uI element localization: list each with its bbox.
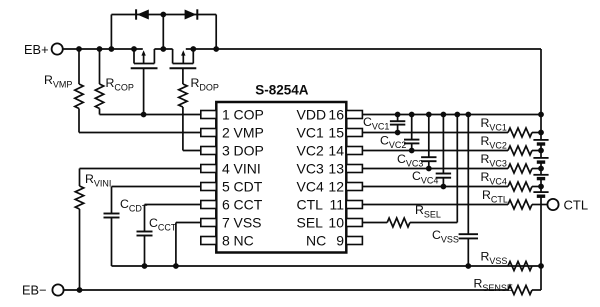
- wire diode loop right riser: [215, 15, 217, 50]
- IC U1 title S-8254A: [255, 83, 309, 98]
- junction VDD wire at CVC2: [409, 112, 415, 118]
- junction on EB+ rail at FET1 drain: [131, 46, 137, 52]
- svg-text:VDD: VDD: [297, 107, 327, 123]
- IC U1 pin stubs: [201, 111, 363, 245]
- transistor Q1 arrow: [141, 50, 145, 63]
- terminal EB+ label: [24, 42, 49, 57]
- resistor RVINI: [75, 169, 83, 291]
- wire battery string: [540, 115, 542, 267]
- wire VSS bottom: [112, 265, 542, 267]
- svg-text:DOP: DOP: [234, 143, 264, 159]
- svg-text:VC4: VC4: [297, 179, 324, 195]
- junction RVC2 on battery string: [538, 148, 544, 154]
- svg-text:NC: NC: [234, 233, 254, 249]
- capacitor CVC3 label: [397, 152, 423, 169]
- transistor Q1 gate bar: [131, 67, 158, 69]
- resistor RVMP label: [44, 73, 72, 90]
- junction CVSS on VSS wire: [465, 263, 471, 269]
- junction CVC2 on VC2 wire: [409, 148, 415, 154]
- junction CVC1 on VC1 wire: [395, 130, 401, 136]
- junction VDD wire at battery string: [538, 112, 544, 118]
- capacitor CVC1 label: [363, 115, 389, 132]
- svg-text:14: 14: [328, 143, 344, 159]
- resistor RSEL: [362, 218, 457, 227]
- junction Q1 gate on COP wire: [141, 112, 147, 118]
- transistor Q1 gate lead: [143, 68, 145, 114]
- resistor RCTL / wire pin11 CTL: [362, 200, 547, 209]
- junction on EB+ rail center node: [160, 46, 166, 52]
- terminal CTL circle: [547, 199, 558, 210]
- svg-text:10: 10: [328, 215, 344, 231]
- transistor Q1 source-drain path: [134, 49, 154, 64]
- junction CCCT on VSS wire: [142, 263, 148, 269]
- svg-text:VMP: VMP: [234, 125, 264, 141]
- svg-text:2: 2: [222, 125, 230, 141]
- capacitor CVC4: [436, 115, 451, 187]
- junction on EB+ rail at RVMP: [76, 46, 82, 52]
- transistor Q2 gate lead: [182, 68, 184, 84]
- junction VDD wire at CVSS: [465, 112, 471, 118]
- transistor Q2 gate bar: [170, 67, 197, 69]
- junction VDD wire at CVC1: [395, 112, 401, 118]
- IC U1 pin numbers and names: [222, 107, 344, 249]
- svg-text:VC2: VC2: [297, 143, 324, 159]
- svg-text:15: 15: [328, 125, 344, 141]
- resistor RVC4 label: [481, 170, 507, 187]
- terminal CTL label: [564, 198, 589, 213]
- svg-text:VC3: VC3: [297, 161, 324, 177]
- resistor RSENSE: [508, 286, 541, 295]
- resistor RVC3 / wire pin13 VC3: [362, 164, 541, 173]
- capacitor CVC2 label: [380, 134, 406, 151]
- capacitor CCDT label: [120, 197, 148, 214]
- junction VDD wire at RSEL riser: [454, 112, 460, 118]
- terminal EB- circle: [52, 284, 63, 295]
- svg-text:3: 3: [222, 143, 230, 159]
- svg-text:8: 8: [222, 233, 230, 249]
- transistor Q2 arrow: [181, 50, 185, 63]
- battery cell BT1: [533, 140, 548, 144]
- junction on EB+ rail at RCOP: [97, 46, 103, 52]
- svg-text:11: 11: [329, 197, 344, 213]
- resistor RCOP label: [106, 76, 134, 93]
- battery cell BT4: [533, 192, 548, 196]
- capacitor CCDT: [104, 187, 120, 267]
- resistor RSENSE label: [474, 277, 513, 294]
- junction VDD wire at CVC4: [441, 112, 447, 118]
- battery cell BT2: [533, 158, 548, 162]
- capacitor CVC1: [390, 115, 405, 133]
- resistor RVC3 label: [481, 152, 507, 169]
- terminal EB- label: [22, 283, 47, 298]
- diode D1 (points left): [136, 9, 149, 19]
- junction on EB+ rail at diode-left: [109, 46, 115, 52]
- svg-text:4: 4: [222, 161, 230, 177]
- junction RVC3 on battery string: [538, 166, 544, 172]
- svg-text:VSS: VSS: [234, 215, 262, 231]
- battery cell BT3: [533, 175, 548, 179]
- junction on EB+ rail at FET2 drain: [190, 46, 196, 52]
- svg-text:5: 5: [222, 179, 230, 195]
- resistor RVSS label: [481, 250, 508, 267]
- svg-text:S-8254A: S-8254A: [255, 83, 309, 98]
- wire pin2 VMP: [79, 132, 201, 134]
- wire pin16 VDD: [362, 114, 541, 116]
- svg-text:1: 1: [222, 107, 230, 123]
- resistor RCOP: [95, 49, 103, 115]
- svg-text:NC: NC: [306, 233, 326, 249]
- resistor RCTL label: [482, 188, 508, 205]
- svg-text:CTL: CTL: [297, 197, 324, 213]
- wire string to EB-: [540, 266, 542, 290]
- resistor RVC2 label: [481, 134, 507, 151]
- wire pin5 CDT: [112, 186, 201, 188]
- resistor RVSS: [508, 262, 532, 271]
- resistor RVC1 / wire pin15 VC1: [362, 128, 541, 137]
- svg-text:SEL: SEL: [297, 215, 324, 231]
- capacitor CCCT: [137, 205, 153, 267]
- wire diode top: [111, 14, 216, 16]
- junction RVC4 on battery string: [538, 184, 544, 190]
- capacitor CVSS label: [432, 228, 459, 245]
- capacitor CCCT label: [149, 216, 177, 233]
- svg-text:VC1: VC1: [297, 125, 324, 141]
- junction RVINI on EB- wire: [77, 287, 83, 293]
- svg-text:9: 9: [336, 233, 344, 249]
- svg-text:13: 13: [328, 161, 344, 177]
- resistor RVINI label: [85, 172, 111, 189]
- wire pin7 VSS: [176, 223, 201, 267]
- resistor RVC4 / wire pin12 VC4: [362, 182, 541, 191]
- junction VDD wire at CVC3: [426, 112, 432, 118]
- capacitor CVSS: [459, 115, 478, 267]
- wire EB+ rail: [63, 48, 541, 50]
- svg-text:VINI: VINI: [234, 161, 261, 177]
- junction on EB+ rail at diode-right: [213, 46, 219, 52]
- svg-text:EB+: EB+: [24, 42, 49, 57]
- wire EB+ rail riser to VDD: [540, 49, 542, 115]
- capacitor CVC3: [421, 115, 436, 169]
- svg-text:6: 6: [222, 197, 230, 213]
- junction RVC1 on battery string: [538, 130, 544, 136]
- capacitor CVC2: [404, 115, 419, 151]
- svg-text:12: 12: [328, 179, 344, 195]
- wire SEL riser: [456, 115, 458, 223]
- svg-text:CCT: CCT: [234, 197, 263, 213]
- svg-text:CDT: CDT: [234, 179, 263, 195]
- resistor RDOP label: [191, 76, 219, 93]
- resistor RVC2 / wire pin14 VC2: [362, 146, 541, 155]
- wire EB-: [64, 289, 508, 291]
- svg-text:EB−: EB−: [22, 283, 47, 298]
- capacitor CVC4 label: [412, 169, 438, 186]
- svg-text:COP: COP: [234, 107, 264, 123]
- transistor Q2 source-drain path: [173, 49, 194, 64]
- junction CVC3 on VC3 wire: [426, 166, 432, 172]
- resistor RVC1 label: [481, 116, 507, 133]
- svg-text:CTL: CTL: [564, 198, 589, 213]
- wire pin3 DOP: [183, 150, 201, 152]
- svg-text:7: 7: [222, 215, 230, 231]
- svg-text:16: 16: [328, 107, 344, 123]
- junction battery string VSS: [538, 263, 544, 269]
- resistor RDOP: [179, 84, 187, 151]
- resistor RSEL label: [415, 203, 441, 220]
- wire diode loop left riser: [110, 15, 112, 50]
- junction pin7 on VSS wire: [173, 263, 179, 269]
- junction diode wire center: [160, 12, 166, 18]
- junction CVC4 on VC4 wire: [441, 184, 447, 190]
- wire pin6 CCT: [145, 204, 201, 206]
- wire pin4 VINI: [80, 168, 201, 170]
- wire pin1 COP: [100, 114, 201, 116]
- terminal EB+ circle: [52, 43, 63, 54]
- IC U1 body: [216, 102, 346, 253]
- resistor RVMP: [75, 49, 83, 133]
- wire diode center riser: [162, 15, 164, 50]
- diode D2 (points right): [185, 9, 198, 19]
